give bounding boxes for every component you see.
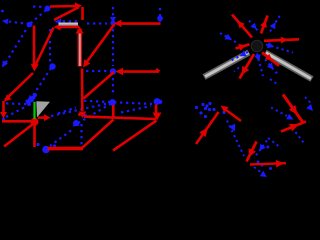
red horizontal arrow y23 shaft	[120, 22, 161, 25]
red short arrow left r7	[236, 44, 250, 48]
lattice point (112,102)	[109, 99, 116, 106]
arrowhead left above bar	[55, 19, 62, 25]
stray blue dot	[269, 167, 272, 170]
dotted D3 shallow	[51, 103, 110, 116]
blue arrow b1	[249, 21, 259, 32]
lattice point (113,23)	[110, 20, 115, 25]
gray bar horizontal	[59, 23, 79, 26]
dotted diagonal D2	[6, 108, 24, 118]
arrowhead into cluster	[29, 95, 35, 102]
red head down at (3.5,118)	[0, 112, 7, 119]
red horizontal y121	[2, 120, 37, 123]
pairC blue head2	[286, 114, 293, 120]
red vertical x34	[33, 26, 36, 66]
dotted D4	[75, 104, 111, 126]
red head left at (114,23)	[114, 20, 122, 28]
dotted vertical x160	[159, 8, 161, 18]
lattice point P2	[45, 6, 51, 12]
red arrow right r4	[264, 39, 299, 41]
red arrow up r2	[261, 16, 268, 34]
dotted vertical x113 low	[112, 78, 114, 96]
red diagonal R6	[113, 121, 157, 151]
dotted D3 band extra	[58, 108, 76, 114]
small dot (54,146)	[53, 144, 56, 147]
lattice point (76,123)	[73, 120, 79, 126]
red diagonal to left edge	[5, 73, 33, 100]
red diagonal R5	[82, 120, 114, 149]
red head right at top corner	[75, 2, 82, 9]
blue dots mid	[268, 138, 281, 148]
red diagonal to top corner	[54, 7, 79, 20]
blue dots below pairD	[296, 132, 304, 143]
red sleeve of vertical bar	[78, 29, 83, 67]
red vertical x156	[155, 105, 158, 116]
arrowhead left on top-left edge	[2, 19, 8, 25]
red vertical x82 mid	[81, 69, 84, 112]
red kick at right end y71	[156, 69, 159, 72]
red diagonal R2 from top	[85, 24, 115, 65]
lattice point (113,71)	[110, 68, 116, 74]
red diagonal R4	[84, 72, 115, 99]
lattice point cluster (31,100)	[28, 97, 34, 103]
left rod core	[205, 53, 249, 77]
pair3 blue head	[229, 124, 235, 132]
dot on F line	[257, 161, 260, 164]
dotted vertical x81 low	[80, 124, 82, 146]
dotted above gray bar	[60, 20, 77, 22]
red short arrow right shaft	[38, 116, 45, 119]
dot on F line2	[261, 164, 264, 167]
pair3 red shaft	[224, 109, 241, 122]
pairA red arrow up-right	[196, 112, 219, 144]
red junction blob	[31, 118, 39, 126]
pairC blue head	[306, 104, 313, 111]
lattice point (157,101)	[154, 98, 161, 105]
red vertical x34 low	[33, 125, 36, 147]
red diagonal to (4,146)	[4, 124, 33, 147]
green line	[33, 102, 35, 119]
dotted vertical x113 top	[112, 7, 114, 18]
pairE blue dotted arrow down-left	[254, 141, 267, 159]
dotted horizontal y23 left of point	[87, 22, 107, 24]
dotted edge P2-P3	[31, 10, 46, 23]
small dot (38,144)	[36, 143, 39, 146]
pairC red arrow down-right	[283, 95, 303, 123]
red arrow down-right r5	[262, 53, 279, 66]
pairD red arrow right-up	[281, 122, 306, 132]
dotted horizontal y102	[84, 101, 152, 104]
red vertical below top corner	[81, 7, 84, 20]
arrowhead down at (113,23)	[110, 17, 116, 23]
right rod outline	[265, 53, 312, 80]
pairE red arrow down-left	[247, 142, 257, 162]
pairF red shaft	[250, 163, 286, 164]
right rod core	[266, 53, 311, 79]
blue dots below left rod	[234, 68, 239, 72]
dotted top short	[33, 5, 44, 8]
dotted horizontal y71	[86, 70, 109, 72]
left rod outline	[204, 53, 249, 78]
red top horizontal arrow shaft	[50, 5, 77, 8]
red head down at (82,118)	[79, 112, 87, 119]
arrowhead down at (160,23)	[157, 17, 163, 23]
point blob extension right	[158, 100, 162, 104]
dotted vertical x50	[49, 29, 51, 63]
red thick horizontal y148	[48, 147, 84, 151]
stray blue dot2	[266, 146, 269, 149]
gray bar vertical core	[79, 30, 81, 66]
arrowhead D4 end	[73, 121, 80, 127]
arrowhead bottom of left diagonal	[2, 60, 8, 67]
lattice point P3	[27, 22, 33, 28]
pair3 red head up-left	[221, 106, 229, 113]
dotted horizontal y103 left	[6, 102, 28, 105]
red vertical left edge	[2, 101, 5, 114]
stray dot top-left	[1, 10, 4, 13]
red shaft under gray bar	[58, 25, 79, 28]
dot end D2	[2, 118, 5, 121]
pairF red head right	[276, 160, 284, 168]
dotted edge top-left horizontal	[6, 21, 29, 24]
blue arrow b5 down-right	[265, 60, 277, 74]
lattice point (160,18)	[157, 16, 163, 22]
blue arrow along right rod	[266, 45, 293, 53]
blue arrow b2 up-right	[270, 15, 281, 32]
pairF blue dotted below	[254, 167, 263, 174]
pairC blue dotted left	[271, 108, 287, 117]
red horizontal arrow y71 shaft	[122, 70, 159, 73]
blue arrow b7 inward	[220, 33, 239, 44]
red head at (4,101)	[4, 94, 12, 101]
red head down at (157,120)	[153, 113, 162, 121]
blue arrow b3 along left rod	[231, 52, 248, 61]
pair3 blue dotted long	[227, 121, 244, 157]
red head at (83,67)	[83, 59, 90, 67]
red head down at (34,71)	[31, 64, 39, 72]
lattice point (52,66)	[49, 63, 55, 69]
red head left at (115,71)	[116, 68, 124, 75]
dotted diagonal to cluster	[32, 68, 51, 97]
central sphere	[251, 40, 263, 52]
blue arrow b4 down	[257, 54, 263, 77]
dotted D5	[50, 131, 71, 147]
lattice point (46,149)	[42, 146, 50, 154]
dotted vertical x113 mid	[112, 29, 114, 66]
small dot at junction 83,115	[83, 114, 87, 118]
red arrow down-left r6	[240, 54, 255, 79]
dotted line to right point	[121, 106, 151, 113]
red head left under bar	[54, 24, 61, 31]
red arrow up-left r1	[232, 15, 252, 38]
red head right at (50,117)	[44, 114, 51, 121]
pairF blue head	[260, 171, 267, 177]
stray red dot (79,114)	[78, 113, 81, 116]
pairC blue dotted right	[305, 97, 312, 104]
red steep diagonal	[36, 28, 54, 65]
red head up at (79.5,27)	[76, 27, 84, 34]
gray triangle	[36, 101, 50, 117]
red long horizontal y118	[84, 117, 156, 119]
blue dots below b5	[270, 79, 277, 84]
dotted left face diagonal	[6, 25, 30, 63]
red vertical x113 low	[112, 105, 115, 119]
